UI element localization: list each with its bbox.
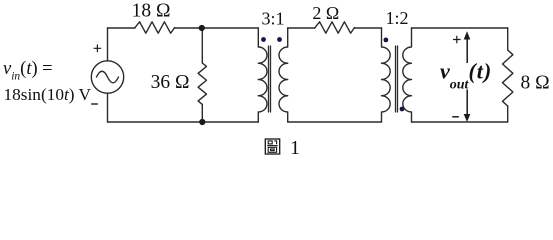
wire top from 18ohm to node A (175, 27, 259, 29)
svg-text:18 Ω: 18 Ω (132, 1, 171, 22)
vout minus sign (452, 116, 459, 118)
wire bottom middle loop (288, 121, 382, 123)
wire 36ohm branch bottom (201, 104, 203, 122)
T1 secondary polarity dot (277, 37, 282, 42)
svg-text:vout(t): vout(t) (440, 59, 492, 93)
svg-text:3:1: 3:1 (261, 9, 284, 29)
wire top right loop (412, 27, 508, 29)
source plus sign (94, 45, 102, 53)
vout plus sign (453, 36, 461, 44)
wire right vertical below 8ohm (507, 106, 509, 122)
source minus sign (91, 103, 98, 105)
resistor 2ohm (315, 22, 355, 33)
wire left vertical above source (107, 28, 109, 61)
transformer T1 core (269, 46, 271, 112)
wire bottom right loop (412, 121, 508, 123)
vout arrow head down (464, 114, 471, 122)
wire bottom-left segment (108, 121, 259, 123)
transformer T1 primary winding (258, 28, 267, 122)
T2 secondary polarity dot (400, 107, 405, 112)
transformer T1 secondary winding (279, 28, 288, 122)
transformer T2 core (396, 46, 398, 112)
wire top from 2ohm to T2 (355, 27, 382, 29)
resistor 8ohm (503, 50, 513, 106)
vout arrow head up (464, 31, 471, 39)
svg-text:2 Ω: 2 Ω (312, 3, 339, 23)
node B junction dot bottom of 36ohm (199, 119, 205, 125)
transformer T2 primary winding (382, 28, 391, 122)
source sine wave (97, 71, 119, 83)
T2 primary polarity dot (384, 38, 389, 43)
wire right vertical above 8ohm (507, 28, 509, 50)
wire top-left segment (108, 27, 136, 29)
wire 36ohm branch top (201, 28, 203, 63)
svg-text:vin(t)=: vin(t)= (3, 59, 53, 83)
node A junction dot top of 36ohm (199, 25, 205, 31)
vout arrow line (466, 38, 468, 115)
wire left vertical below source (107, 93, 109, 122)
caption figure glyph (CJK tu) (265, 139, 279, 154)
wire top middle to 2ohm (288, 27, 315, 29)
resistor 18ohm (135, 22, 175, 33)
svg-text:18sin(10t) V: 18sin(10t) V (4, 85, 92, 104)
svg-text:1:2: 1:2 (385, 8, 408, 28)
source vin circle (91, 61, 123, 93)
svg-text:8 Ω: 8 Ω (521, 73, 550, 94)
svg-text:1: 1 (290, 137, 300, 159)
svg-text:36 Ω: 36 Ω (151, 72, 190, 93)
transformer T2 secondary winding (403, 28, 412, 122)
resistor 36ohm (198, 63, 206, 104)
T1 primary polarity dot (261, 37, 266, 42)
